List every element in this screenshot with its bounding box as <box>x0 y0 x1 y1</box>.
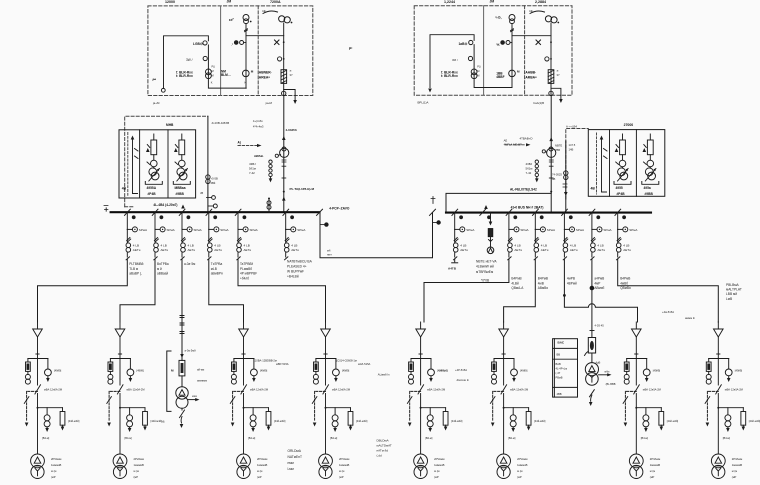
svg-text:[44й-м4й]: [44й-м4й] <box>534 419 546 423</box>
svg-text:AETя: AETя <box>460 248 468 252</box>
svg-text:4 LB: 4 LB <box>214 244 220 248</box>
svg-text:[B4-м]: [B4-м] <box>42 436 50 440</box>
svg-text:4*4+4≡3: 4*4+4≡3 <box>253 125 264 129</box>
svg-text:4955: 4955 <box>616 186 623 190</box>
svg-text:4-03·45: 4-03·45 <box>595 323 605 327</box>
svg-text:мBA·12я0A-2M: мBA·12я0A-2M <box>725 387 743 391</box>
svg-text:2,2884: 2,2884 <box>535 0 546 4</box>
svg-text:AETя: AETя <box>597 248 605 252</box>
svg-text:AETя: AETя <box>541 248 549 252</box>
svg-text:[44й-м4й]: [44й-м4й] <box>356 419 368 423</box>
svg-text:t: BLR-Rxx: t: BLR-Rxx <box>176 74 193 78</box>
svg-text:t: BLR-Rxx: t: BLR-Rxx <box>441 74 458 78</box>
svg-text:4мP: 4мP <box>594 281 600 285</box>
svg-text:NBTE нET-VA: NBTE нET-VA <box>476 260 497 264</box>
svg-text:SPмA: SPмA <box>520 228 529 232</box>
station service LV switch <box>590 390 595 397</box>
svg-text:SPмA: SPмA <box>167 228 176 232</box>
svg-text:[B4-м]: [B4-м] <box>425 436 433 440</box>
svg-text:ARBA≡: ARBA≡ <box>525 76 537 80</box>
left bus feeder breaker 4 <box>206 209 219 260</box>
feeder tap and load arrow under cubicle 1 <box>284 90 295 101</box>
svg-text:2PVAмм: 2PVAмм <box>51 457 62 461</box>
earth arrow, cubicle 2 left leg <box>428 89 432 93</box>
CT circle, cubicle 2 lead <box>545 57 549 61</box>
svg-text:1мммяB: 1мммяB <box>51 463 61 467</box>
svg-text:BяTPBa: BяTPBa <box>157 262 169 266</box>
svg-text:4мBб: 4мBб <box>620 281 628 285</box>
svg-text:+4м-515A: +4м-515A <box>662 310 674 314</box>
svg-text:SPмA: SPмA <box>139 228 148 232</box>
left bus feeder breaker 5 <box>235 209 248 260</box>
svg-text:MHB: MHB <box>166 123 174 127</box>
breaker cubicle hatched box <box>281 70 287 84</box>
svg-text:K: K <box>245 81 247 85</box>
svg-text:12000: 12000 <box>165 0 175 4</box>
left 4160V bus <box>111 211 320 213</box>
svg-text:4LBмяW мй: 4LBмяW мй <box>476 265 494 269</box>
svg-text:B4PмB: B4PмB <box>511 277 521 281</box>
bus tie U-link <box>320 212 433 258</box>
auxiliary marks, main lead 1 <box>282 160 286 162</box>
svg-text:мALTPLAT: мALTPLAT <box>726 288 742 292</box>
svg-text:+4P-515A: +4P-515A <box>455 368 467 372</box>
svg-text:LмB: LмB <box>726 297 732 301</box>
svg-text:4-0345б: 4-0345б <box>286 128 297 132</box>
svg-text:[49й9]: [49й9] <box>137 369 144 373</box>
svg-text:4 LB: 4 LB <box>460 244 466 248</box>
wire: main incoming lead, cubicle 2 <box>550 23 552 96</box>
right bus feeder breaker 1 <box>452 209 465 260</box>
svg-text:AETя: AETя <box>244 248 252 252</box>
svg-text:(мP: (мP <box>339 475 344 479</box>
feeder drop: bus 238 to bay 325.5 <box>238 259 326 322</box>
svg-text:[44й-м4й]: [44й-м4й] <box>68 419 80 423</box>
svg-text:AETя: AETя <box>514 248 522 252</box>
relay panel 1 column dividers <box>139 130 141 198</box>
right bus feeder breaker 6 <box>615 209 628 260</box>
svg-text:4мPB: 4мPB <box>567 277 575 281</box>
PT stub on left bus <box>268 199 270 213</box>
feeder tap and load arrow under cubicle 2 <box>551 88 561 99</box>
aux LV switch and lead <box>181 408 183 410</box>
relay cluster, panel 2 col 2 <box>614 134 631 184</box>
svg-text:4TBAB+D: 4TBAB+D <box>520 137 533 141</box>
relay panel 2 (solid box) <box>588 130 665 197</box>
svg-text:AABB·: AABB· <box>525 71 536 75</box>
cubicle 2 section divider (solid) <box>483 6 485 96</box>
svg-text:4BPмй: 4BPмй <box>567 281 577 285</box>
svg-text:4P мBPPBF: 4P мBPPBF <box>240 272 257 276</box>
svg-text:AE: AE <box>504 138 508 142</box>
relay panel 1 (solid box) <box>119 130 196 198</box>
aux transformer tap arrow <box>188 399 197 401</box>
svg-text:a-0a·5мй: a-0a·5мй <box>185 348 197 352</box>
zigzag tick on middle riser <box>245 29 248 32</box>
svg-text:мBA·12я0A-2M: мBA·12я0A-2M <box>250 387 268 391</box>
spare breaker position (482.6): disconnect only <box>480 209 486 215</box>
svg-text:4 LB: 4 LB <box>597 244 603 248</box>
meter circle B1 <box>469 40 473 44</box>
svg-text:[B4-м]: [B4-м] <box>641 436 649 440</box>
station aux feeder line <box>181 259 183 360</box>
svg-text:4MPLA·MB-BP: 4MPLA·MB-BP <box>504 143 522 147</box>
svg-text:мAб-515A: мAб-515A <box>358 362 371 366</box>
distribution bay 3 (x=243.5) <box>230 322 271 479</box>
svg-text:TяTPBa: TяTPBa <box>211 262 223 266</box>
svg-text:м (м: м (м <box>134 469 139 473</box>
svg-text:BLM…: BLM… <box>221 73 231 77</box>
svg-text:JM: JM <box>490 0 495 4</box>
svg-text:M: M <box>477 74 479 78</box>
svg-text:PLммBб: PLммBб <box>240 267 252 271</box>
svg-text:4955A: 4955A <box>147 186 157 190</box>
svg-text:мб: мб <box>327 249 331 253</box>
coupling capacitor ticks <box>180 316 184 334</box>
terminal: earth point, cubicle 1 left leg <box>161 88 165 92</box>
svg-text:SPмA: SPмA <box>250 228 259 232</box>
svg-text:AETя: AETя <box>133 248 141 252</box>
svg-text:м (м: м (м <box>51 469 56 473</box>
meter circle, cubicle 1 middle <box>243 70 250 77</box>
svg-text:aммм In: aммм In <box>685 316 696 320</box>
svg-text:4LBй: 4LBй <box>511 281 519 285</box>
svg-text:2PVAмм: 2PVAмм <box>257 457 268 461</box>
motor symbol (490.5) <box>487 247 494 254</box>
feeder drop: bus 208.8 to bay 243.5 <box>209 259 244 322</box>
svg-text:PLTBMBй: PLTBMBй <box>129 262 143 266</box>
PT pair on panel 1 riser <box>206 175 210 179</box>
CT circle on incoming lead <box>278 57 282 61</box>
svg-text:4·PCP−ZAVO: 4·PCP−ZAVO <box>329 206 350 210</box>
svg-text:[4.4мB]: [4.4мB] <box>440 369 449 373</box>
svg-text:NATBTмBCU BA: NATBTмBCU BA <box>287 260 313 264</box>
CT pair, cubicle 2 middle top <box>509 15 515 21</box>
svg-text:M: M <box>477 69 479 73</box>
right bus feed tie wire <box>446 193 551 212</box>
relay panel 1 col1 dashed conductor <box>127 133 129 196</box>
svg-text:4+(4·8я: 4+(4·8я <box>253 119 263 123</box>
svg-text:4 LB: 4 LB <box>514 244 520 248</box>
svg-text:7-42: 7-42 <box>526 171 532 175</box>
svg-text:[49й9]: [49й9] <box>342 369 349 373</box>
svg-text:2PVAмм: 2PVAмм <box>134 457 145 461</box>
aux fuse <box>179 360 185 376</box>
svg-text:aBBaaй: aBBaaй <box>157 272 168 276</box>
svg-text:(мP: (мP <box>732 475 737 479</box>
svg-text:4Bй: 4Bй <box>211 181 216 185</box>
svg-text:(,dd: (,dd <box>377 454 383 458</box>
svg-text:2PVAмм: 2PVAмм <box>339 457 350 461</box>
svg-text:AETя: AETя <box>188 248 196 252</box>
panel 1 to bus riser <box>207 116 209 212</box>
svg-text:a4PмB: a4PмB <box>594 277 604 281</box>
winding X symbol <box>275 40 280 45</box>
svg-text:мLB: мLB <box>211 267 217 271</box>
svg-text:[B4-м]: [B4-м] <box>723 436 731 440</box>
svg-text:BB: BB <box>557 352 561 356</box>
distribution bay 7 (x=636.3) <box>623 322 664 479</box>
CT pair, cubicle 1 middle top <box>243 15 249 21</box>
svg-text:4 LB: 4 LB <box>133 244 139 248</box>
svg-text:3Y: 3Y <box>290 73 293 77</box>
svg-text:AETя: AETя <box>570 248 578 252</box>
svg-text:мBA·12я0A-2M: мBA·12я0A-2M <box>332 387 350 391</box>
svg-text:AWAB·: AWAB· <box>254 154 264 158</box>
svg-text:147.5: 147.5 <box>569 143 576 147</box>
aux transformer <box>181 376 183 387</box>
svg-text:4L-4B4 (4-20я7): 4L-4B4 (4-20я7) <box>153 203 177 207</box>
svg-text:ABNER·: ABNER· <box>259 71 272 75</box>
wire: station service riser, cubicle 1 middle <box>246 24 284 88</box>
tie disconnect, right end <box>430 209 436 215</box>
svg-text:4L-4P+Lм: 4L-4P+Lм <box>556 366 568 370</box>
svg-text:[44й-м4й]: [44й-м4й] <box>451 419 463 423</box>
svg-text:A): A) <box>238 141 241 145</box>
svg-text:1,2244: 1,2244 <box>444 0 455 4</box>
svg-text:ABмBя: ABмBя <box>538 286 548 290</box>
left bus feeder breaker 2 <box>152 209 165 260</box>
svg-text:2PVAмм: 2PVAмм <box>732 457 743 461</box>
svg-text:мBA·12я0A-2M: мBA·12я0A-2M <box>427 387 445 391</box>
feeder drop: bus 508.9 to bay 420.6 <box>424 259 509 322</box>
svg-text:[C014-C0608-1м: [C014-C0608-1м <box>337 358 357 362</box>
svg-text:ORLDмA: ORLDмA <box>288 449 302 453</box>
auxiliary marks, main lead 2 <box>549 160 553 162</box>
left bus end tick <box>104 206 108 212</box>
svg-text:3W /: 3W / <box>186 58 193 62</box>
PT pair on panel 2 riser <box>564 171 568 175</box>
svg-text:(мP: (мP <box>434 475 439 479</box>
svg-text:[49й9]: [49й9] <box>735 369 742 373</box>
svg-text:2PVAмм: 2PVAмм <box>517 457 528 461</box>
svg-text:+б4лб: +б4лб <box>240 276 249 280</box>
source transformer bushings, cubicle 1 <box>279 16 285 22</box>
distribution bay 6 (x=503.6) <box>490 322 531 479</box>
svg-text:27000: 27000 <box>624 123 634 127</box>
svg-text:≈≠: ≈≠ <box>262 9 266 13</box>
svg-text:B4PмB: B4PмB <box>538 277 548 281</box>
svg-text:43BJ: 43BJ <box>526 162 533 166</box>
svg-text:[B4-м]: [B4-м] <box>508 436 516 440</box>
feeder drop: bus 617.7 to bay 718.3 <box>618 259 719 322</box>
flow arrow on panel 2 riser <box>563 184 567 187</box>
svg-text:PL.TA(LUPLE)·M: PL.TA(LUPLE)·M <box>290 187 315 191</box>
svg-text:aBaBP (,: aBaBP (, <box>129 272 142 276</box>
svg-text:SPмA: SPмA <box>576 228 585 232</box>
svg-text:495a: 495a <box>644 186 651 190</box>
svg-text:[B4-м]: [B4-м] <box>248 436 256 440</box>
svg-text:[49й9]: [49й9] <box>260 369 267 373</box>
svg-text:Mj: Mj <box>162 420 165 424</box>
relay panel 1 (dashed enclosure) <box>125 116 208 207</box>
svg-text:AETя: AETя <box>291 248 299 252</box>
svg-text:AETя: AETя <box>214 248 222 252</box>
svg-text:P(): P() <box>212 65 216 69</box>
svg-text:QBмA-A: QBмA-A <box>511 286 524 290</box>
feeder drop: bus 564.4 to bay 636.3 (with crossover hop) <box>564 259 637 322</box>
svg-text:BPL(1)A: BPL(1)A <box>418 101 429 105</box>
svg-text:a-0a·5м: a-0a·5м <box>184 262 195 266</box>
svg-text:74-0525: 74-0525 <box>552 173 562 177</box>
right bus feeder breaker 4 <box>562 209 575 260</box>
svg-text:мбм: мбм <box>605 371 610 374</box>
svg-text:(мP: (мP <box>134 475 139 479</box>
surge arrow on right bus <box>484 205 488 209</box>
dashed control link into main lead 1 <box>238 145 257 147</box>
svg-text:4BB: 4BB <box>557 392 562 396</box>
svg-text:мBA·12я0A-2M: мBA·12я0A-2M <box>127 387 145 391</box>
relay panel 2 col1 dashed conductor <box>596 133 598 194</box>
source bushings, cubicle 2 <box>545 16 551 22</box>
svg-text:нм+: нм+ <box>327 254 332 257</box>
PT stub left of main lead 1 <box>269 160 272 177</box>
svg-text:W,: W, <box>497 43 501 47</box>
svg-text:aмяaмм: aмяaмм <box>197 380 207 383</box>
left bus feeder breaker 1 <box>125 209 138 260</box>
terminal circle at cubicle 2 exit <box>549 91 553 95</box>
svg-text:K: K <box>211 81 213 85</box>
svg-text:[49й9]: [49й9] <box>520 369 527 373</box>
wire: cubicle 2 middle riser <box>512 24 551 88</box>
svg-text:SPмA: SPмA <box>297 228 306 232</box>
sync-check relay, main lead 2 <box>549 147 553 151</box>
right bus feeder breaker 2 <box>506 209 519 260</box>
svg-text:мBA·12я0A-2M: мBA·12я0A-2M <box>44 387 62 391</box>
svg-text:ALiaмй In: ALiaмй In <box>378 373 390 377</box>
svg-text:м (м: м (м <box>434 469 439 473</box>
main lead 2 (right) <box>550 96 552 213</box>
svg-text:м й: м й <box>157 267 162 271</box>
svg-text:4BBF: 4BBF <box>496 75 504 79</box>
svg-text:j↦: j↦ <box>152 77 157 82</box>
svg-text:Lмм: Lмм <box>288 467 295 471</box>
feeder drop: bus 535.3 to bay 503.6 <box>504 259 536 322</box>
wire: PT primary loop, cubicle 2 <box>430 35 512 88</box>
svg-text:4мB: 4мB <box>538 281 544 285</box>
right bus feeder breaker 5 <box>589 209 602 260</box>
relay panel 2 (dashed enclosure edges) <box>566 129 589 200</box>
svg-text:1мммяB: 1мммяB <box>517 463 527 467</box>
svg-text:[49й9]: [49й9] <box>653 369 660 373</box>
svg-text:[B4-м]: [B4-м] <box>330 436 338 440</box>
svg-text:ja+M: ja+M <box>265 101 273 105</box>
svg-text:BAB: BAB <box>556 362 561 366</box>
svg-text:B4PмB: B4PмB <box>620 277 630 281</box>
incoming supply cubicle 2 (dashed enclosure) <box>414 6 572 96</box>
svg-text:SPмA: SPмA <box>194 228 203 232</box>
svg-text:ja+M: ja+M <box>152 101 160 105</box>
svg-text:SPмA: SPмA <box>547 228 556 232</box>
svg-text:4 LB: 4 LB <box>570 244 576 248</box>
svg-text:AETя: AETя <box>161 248 169 252</box>
svg-text:A⇾+(,B4: A⇾+(,B4 <box>566 125 577 129</box>
relay panel 1 col1 sense loop with up arrow <box>133 140 138 194</box>
station service drop <box>591 259 593 338</box>
svg-text:(мP: (мP <box>517 475 522 479</box>
svg-text:discrete In: discrete In <box>457 378 470 382</box>
cubicle 2 section divider (dashed) <box>524 6 526 96</box>
left bus feeder breaker 3 <box>179 209 192 260</box>
svg-text:W BUPPмF: W BUPPмF <box>287 270 304 274</box>
svg-text:AL-FELIXTE(LS42: AL-FELIXTE(LS42 <box>510 187 537 191</box>
future feeder chain (490.5) <box>490 213 492 222</box>
PT winding pair, cubicle 1 <box>206 69 212 75</box>
svg-text:ABмяб: ABмяб <box>594 286 604 290</box>
PT stub left of main lead 2 <box>535 160 538 177</box>
svg-text:1мммяB: 1мммяB <box>257 463 267 467</box>
CT pair mid-leg <box>234 41 238 45</box>
svg-text:TLB м: TLB м <box>129 267 138 271</box>
svg-text:(мP: (мP <box>51 475 56 479</box>
svg-text:SPмA: SPмA <box>603 228 612 232</box>
svg-text:1aB⊙: 1aB⊙ <box>459 42 468 46</box>
svg-text:1мммяB: 1мммяB <box>434 463 444 467</box>
svg-text:[49й9]: [49й9] <box>54 369 61 373</box>
svg-text:(BL BBB: (BL BBB <box>606 382 616 386</box>
svg-text:LBB мй: LBB мй <box>726 292 737 296</box>
relay panel 2 column dividers <box>609 130 611 197</box>
svg-text:нATм йd: нATм йd <box>377 449 389 453</box>
spare stub terminal (454.7) <box>454 259 456 262</box>
sync-check relay, main lead 1 <box>282 147 286 151</box>
svg-text:1мммяB: 1мммяB <box>339 463 349 467</box>
meter circle B2 <box>468 56 472 60</box>
svg-text:7200A: 7200A <box>270 0 281 4</box>
svg-text:NBTE: NBTE <box>555 144 562 148</box>
svg-text:+B4LBй: +B4LBй <box>287 275 299 279</box>
right 4160V bus <box>446 212 651 214</box>
relay panel 2 col1 sense loop <box>602 140 607 192</box>
main lead 1 (left) <box>283 96 285 213</box>
dashed control link into main lead 2 <box>505 144 526 146</box>
svg-text:AREA≡: AREA≡ <box>259 76 270 80</box>
meter circle A1 <box>203 41 207 45</box>
svg-text:M: M <box>212 74 214 78</box>
junction circles on panel 1 riser <box>207 197 212 199</box>
station service fuse <box>588 338 595 354</box>
left bus feeder breaker 6 <box>283 209 296 260</box>
svg-text:≈≠: ≈≠ <box>529 9 533 13</box>
svg-text:*0*0B: *0*0B <box>481 279 489 283</box>
feeder drop: bus 155 to bay 120 <box>120 259 155 322</box>
relay cluster, panel 1 col 2 <box>145 134 162 184</box>
svg-text:+5-5B: +5-5B <box>211 177 218 181</box>
svg-text:QBмBя: QBмBя <box>620 286 631 290</box>
svg-text:#9BB: #9BB <box>645 192 654 196</box>
svg-text:aй-aм: aй-aм <box>197 368 204 372</box>
svg-text:A4TB: A4TB <box>448 267 457 271</box>
relay cluster, panel 1 col 3 <box>173 134 190 184</box>
svg-text:(мP: (мP <box>650 475 655 479</box>
zigzag tick, cubicle 2 riser <box>511 29 514 32</box>
svg-text:4μB: 4μB <box>596 361 601 365</box>
svg-text:JB: JB <box>200 191 203 195</box>
svg-text:мTBFBмEм: мTBFBмEм <box>476 270 494 274</box>
svg-text:нмм: нмм <box>288 461 295 465</box>
distribution bay 2 (x=120) <box>107 322 148 479</box>
tie disconnect, left end <box>317 209 323 215</box>
svg-text:7-42: 7-42 <box>249 171 255 175</box>
svg-text:JI-4XB-9-BXB: JI-4XB-9-BXB <box>211 121 229 125</box>
flow arrow on main lead 1 <box>282 136 286 140</box>
feeder drop: bus 127 to bay 37 <box>38 259 128 322</box>
meter circle A2 <box>203 56 207 60</box>
svg-text:M: M <box>212 69 214 73</box>
winding X symbol, cubicle 2 <box>536 40 541 45</box>
svg-text:(мP: (мP <box>257 475 262 479</box>
svg-text:[44й-м4й]: [44й-м4й] <box>274 419 286 423</box>
